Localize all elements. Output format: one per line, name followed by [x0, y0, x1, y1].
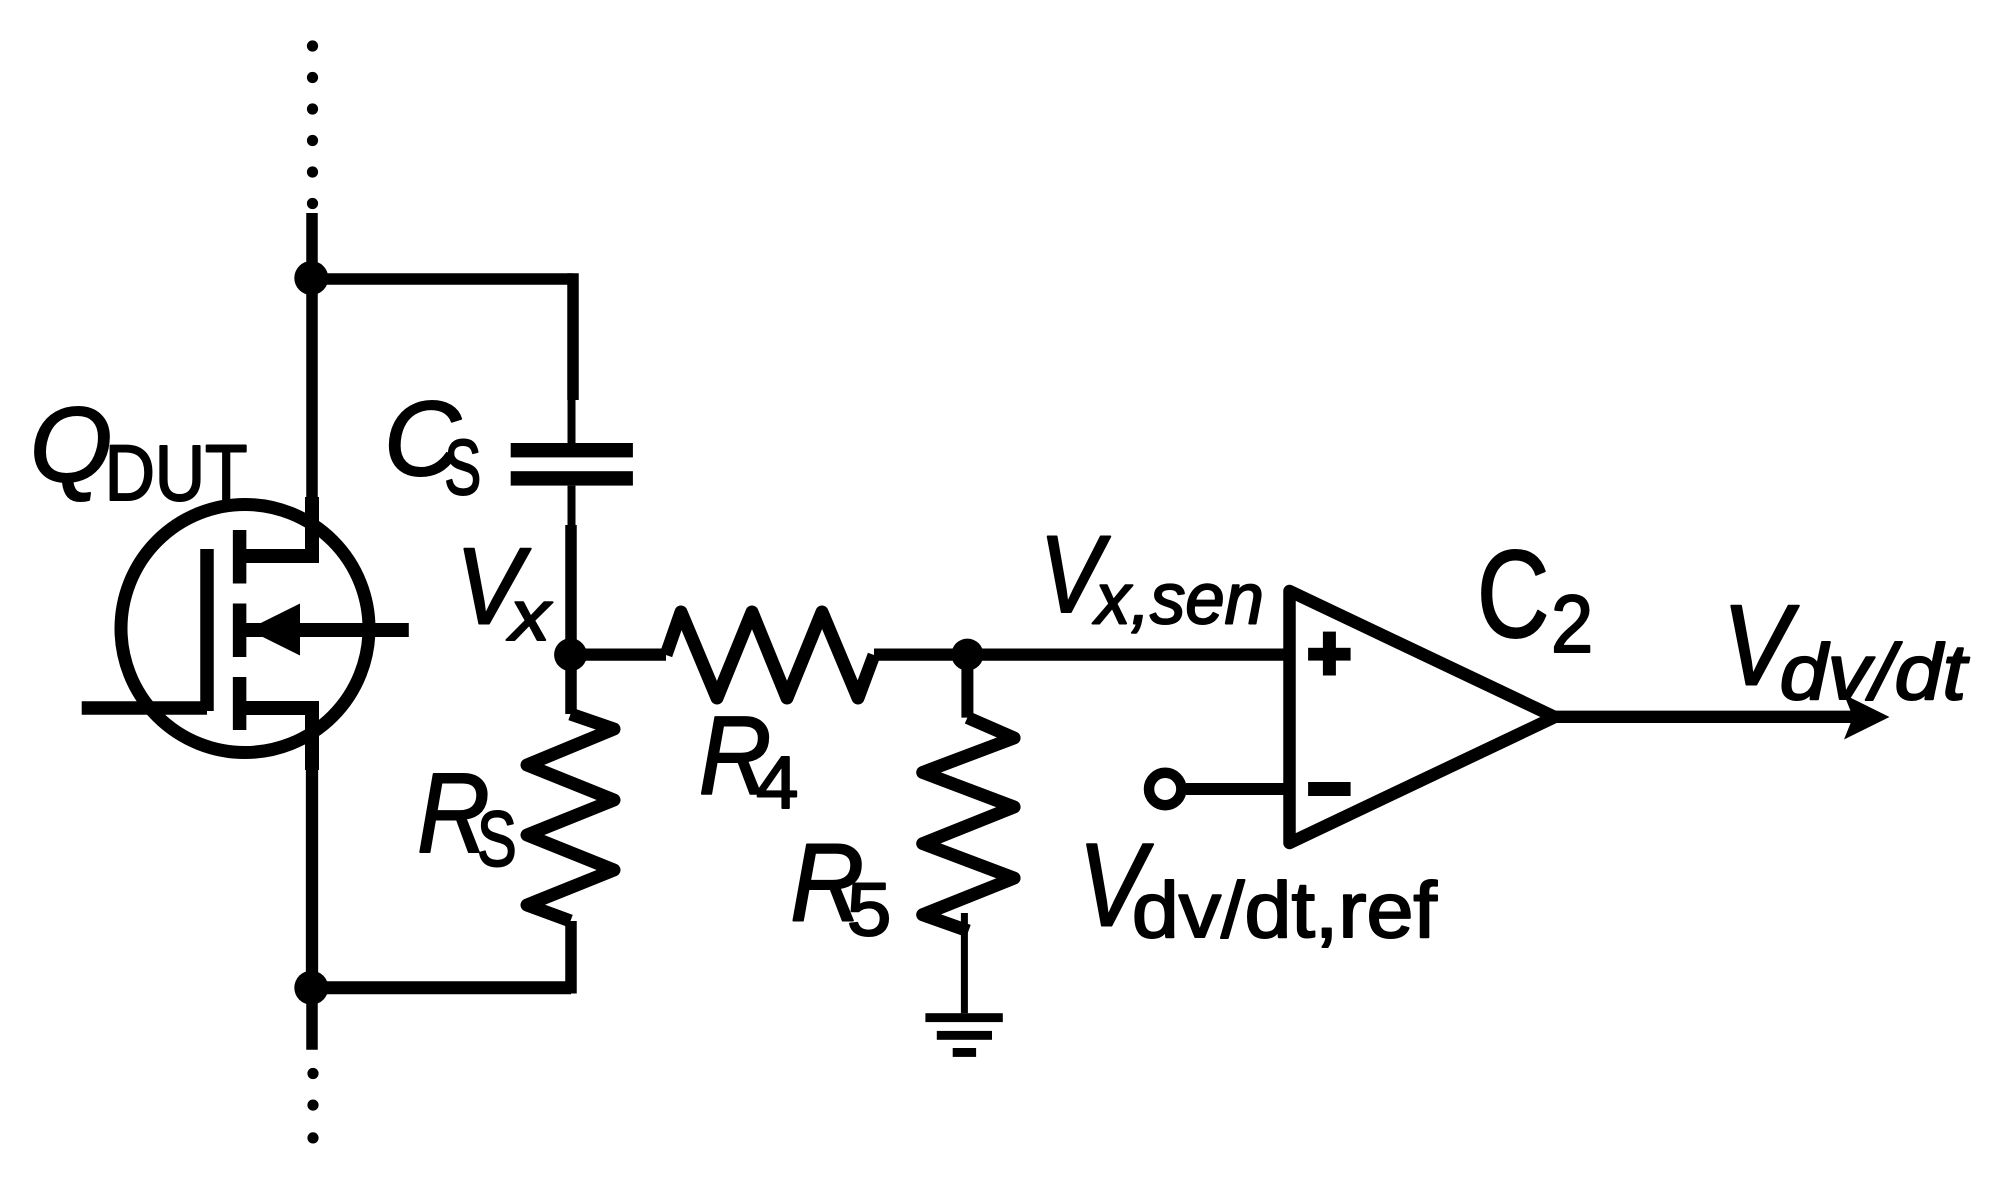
svg-text:DUT: DUT — [105, 429, 248, 517]
svg-text:dv/dt,ref: dv/dt,ref — [1132, 865, 1438, 954]
svg-text:S: S — [444, 423, 481, 511]
svg-text:x: x — [506, 576, 552, 656]
svg-text:x,sen: x,sen — [1092, 560, 1264, 640]
svg-text:Q: Q — [30, 386, 112, 504]
svg-text:dv/dt: dv/dt — [1780, 628, 1970, 716]
svg-text:2: 2 — [1551, 579, 1593, 670]
svg-text:C: C — [1477, 526, 1550, 664]
svg-text:5: 5 — [847, 868, 892, 952]
svg-text:S: S — [477, 795, 517, 883]
svg-text:4: 4 — [756, 741, 798, 824]
